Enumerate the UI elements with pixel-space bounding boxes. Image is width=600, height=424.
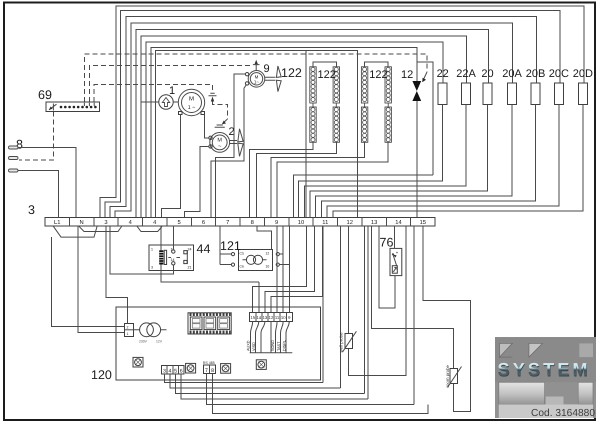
lamp 22 [438, 83, 447, 104]
well probe (NTC sensor) [339, 331, 357, 352]
svg-text:230V: 230V [139, 340, 148, 344]
wire loop from terminal 4 to lamp 22A [141, 36, 467, 217]
terminal block 3 [28, 203, 435, 226]
svg-text:RS 485: RS 485 [203, 361, 215, 365]
svg-text:3: 3 [163, 369, 166, 375]
wire motor9 lower terminal to strip [244, 85, 246, 88]
svg-text:69: 69 [38, 88, 52, 102]
svg-text:21: 21 [188, 266, 192, 270]
wire switch 76 to terminal 13 [379, 226, 395, 308]
svg-text:20D: 20D [573, 68, 593, 80]
wire terminal 12 down [340, 226, 342, 388]
wire terminal 13 to room probe [372, 226, 454, 369]
wire board pin 7 down [206, 373, 414, 404]
svg-text:12: 12 [269, 315, 274, 320]
pins of transformer 121 [231, 253, 234, 256]
transformer on board 120 [140, 323, 154, 337]
svg-text:Cod. 3164880: Cod. 3164880 [531, 408, 595, 419]
wire motor2 lower terminal to strip [184, 146, 208, 217]
display module on board 120 [188, 313, 231, 334]
wire motor1 left terminal to strip [162, 115, 181, 218]
svg-text:1: 1 [127, 332, 129, 336]
output connector 3-6 of board 120 [162, 366, 184, 375]
svg-text:1~: 1~ [254, 80, 260, 85]
capacitor / direction indicator of motor 1 [141, 95, 178, 109]
lamp 20C [554, 83, 563, 104]
svg-text:M: M [217, 138, 222, 144]
svg-text:12V: 12V [156, 340, 163, 344]
svg-text:C6: C6 [240, 265, 244, 269]
lamp 20B [531, 83, 540, 104]
svg-text:122: 122 [281, 66, 302, 80]
svg-text:122: 122 [318, 69, 336, 81]
svg-text:11: 11 [322, 220, 328, 226]
svg-text:5: 5 [177, 220, 180, 226]
svg-text:20C: 20C [549, 68, 569, 80]
display connector on board 120 [246, 312, 292, 353]
svg-text:8: 8 [211, 368, 214, 374]
dashed control line 69 to motor 1/2 thermal contacts [94, 85, 212, 102]
wire loop from terminal 3 to lamp 20D [100, 6, 584, 217]
control board 120 [91, 307, 321, 382]
wire lamp 20B to terminal 11 [321, 104, 535, 217]
wire lamp 20C to terminal 12 [327, 104, 559, 217]
svg-text:122: 122 [369, 69, 387, 81]
svg-text:10: 10 [281, 315, 286, 320]
mounting pads of board 120 [133, 357, 266, 373]
wire board pin 8 down [213, 373, 428, 413]
wire lamp 22A to terminal 10 [304, 104, 466, 217]
svg-text:L1: L1 [54, 220, 60, 226]
wire lamp 20 to terminal 11 [310, 104, 488, 217]
svg-text:13: 13 [263, 315, 268, 320]
svg-text:7: 7 [226, 220, 229, 226]
wire terminal L1 to board 120 power connector [78, 226, 124, 333]
lamp 22A [462, 83, 471, 104]
wire terminal 12 to well probe [348, 226, 350, 334]
svg-text:13: 13 [371, 219, 377, 226]
svg-text:7: 7 [205, 368, 208, 374]
coil of relay 44 [159, 250, 163, 264]
wires transformer 121 secondary to terminals 9 [279, 254, 289, 265]
wire jumper L1 link to board 120 power connector [52, 237, 125, 326]
wire terminal 4 through relay 44 coil [161, 226, 259, 282]
solenoid valve 12 [401, 69, 421, 217]
wire loop from terminal 4 to lamp 20A [115, 23, 513, 217]
svg-text:14: 14 [256, 315, 261, 320]
wire board pin 3 to terminal 11 [164, 374, 323, 382]
wire terminal 13 down [365, 226, 369, 399]
thermal contact of motor 1 [209, 93, 217, 101]
wire loop from terminal 4 to solenoid valve 12 [151, 48, 417, 218]
svg-text:6: 6 [202, 219, 205, 226]
door microswitch 76 [380, 236, 402, 276]
svg-text:76: 76 [380, 236, 394, 250]
wire terminal 8 to transformer 121 top [257, 226, 272, 250]
fan blades of motor 9 [265, 66, 281, 92]
svg-text:6: 6 [180, 369, 183, 375]
svg-text:22: 22 [437, 68, 449, 80]
wire valve node to terminal 10 [293, 175, 433, 217]
svg-text:SOND: SOND [271, 340, 275, 351]
wire motor9 upper terminal to strip [215, 74, 245, 217]
wire terminal 7 to transformer 121 primary [220, 226, 232, 265]
svg-text:8: 8 [251, 219, 254, 226]
wire motor2 upper terminal [205, 115, 209, 138]
auxiliary contact of relay 44 [186, 251, 188, 264]
wire terminal 11 down [322, 226, 324, 383]
jumper link N-4 [79, 226, 122, 232]
motor M2 (cooling fan) [209, 126, 235, 152]
svg-text:14: 14 [395, 220, 402, 226]
svg-text:3: 3 [28, 203, 35, 217]
svg-text:20B: 20B [526, 68, 546, 80]
jumper link L1-3 [53, 226, 97, 237]
svg-text:22A: 22A [456, 68, 476, 80]
connector strip 69 [38, 88, 99, 112]
wire board pin 5 to terminal 13 [176, 374, 365, 393]
svg-text:C5: C5 [240, 252, 244, 256]
wires to board 120 display connector [253, 226, 323, 312]
wire lamp 20D to terminal 12 [333, 104, 583, 217]
wire loop from terminal 3 to lamp 20B [110, 17, 537, 218]
svg-text:room probe: room probe [445, 364, 450, 387]
lamp 20 [483, 83, 492, 104]
svg-text:N: N [80, 220, 84, 226]
heater element 122 (right pair) [271, 62, 392, 217]
wire board pin 6 to terminal 13 [181, 374, 368, 399]
wire from valve node to nested bus [417, 62, 433, 175]
wire terminal 15 boundary down [413, 226, 415, 405]
wire terminal 14 to well probe return [349, 226, 406, 376]
jumper link 4-4 [137, 226, 162, 232]
svg-text:121: 121 [220, 239, 241, 253]
svg-text:SYSTEM: SYSTEM [498, 360, 591, 380]
svg-text:20A: 20A [502, 68, 522, 80]
svg-text:5: 5 [174, 369, 177, 375]
wire terminal 5 to relay 44 contact [172, 226, 174, 250]
wire loop from terminal 4 to lamp 22 [146, 42, 443, 217]
svg-text:M: M [189, 96, 194, 103]
thermal contact of motor 9 [253, 60, 260, 71]
svg-text:14: 14 [171, 258, 175, 262]
pin labels of relay 44 [151, 248, 192, 270]
svg-text:15: 15 [420, 220, 426, 226]
motor M9 (hood motor) [245, 63, 302, 87]
wire board pin 4 to terminal 12 [170, 374, 341, 388]
heater element 122 (left pair) [250, 62, 340, 217]
fan blades of motor 2 [230, 129, 243, 157]
wire lamp 20A to terminal 11 [316, 104, 512, 217]
svg-text:20: 20 [481, 68, 493, 80]
svg-text:3: 3 [151, 266, 153, 270]
dashed line 69 to plug 8 [19, 112, 53, 160]
dashed control line 69 to valve 12 [84, 54, 427, 102]
room probe (NTC sensor) [445, 364, 462, 387]
fanout wires to ribbon labels [251, 321, 290, 353]
power connector of board 120 [125, 323, 134, 336]
contact terminals of relay 44 [172, 250, 175, 253]
lamp 20D [578, 83, 587, 104]
svg-text:3: 3 [104, 219, 107, 226]
svg-text:44: 44 [197, 242, 211, 256]
svg-text:10: 10 [298, 219, 304, 226]
svg-text:10: 10 [266, 265, 270, 269]
svg-text:15: 15 [250, 315, 255, 320]
wire terminal 15 to room probe return [423, 226, 471, 411]
svg-text:11: 11 [275, 315, 280, 320]
relay 44 [149, 242, 210, 270]
svg-text:*: * [396, 251, 398, 257]
mains plug 8 [9, 138, 77, 218]
svg-text:1 ~: 1 ~ [188, 105, 196, 111]
wire terminal 14 to switch 76 [393, 226, 395, 249]
thermal contact of motor 2 [215, 125, 225, 127]
svg-text:~: ~ [218, 144, 222, 150]
wire plug earth to terminal L1 [18, 171, 59, 218]
wire loop from terminal 3 to lamp 20C [105, 11, 560, 218]
svg-text:24: 24 [188, 248, 192, 252]
dashed control line 69 to motor 9 thermal contact [89, 66, 250, 102]
svg-text:12: 12 [266, 252, 270, 256]
wire bus to heater elements 122 [156, 51, 358, 218]
svg-text:12: 12 [346, 219, 352, 226]
svg-text:AUXD: AUXD [246, 340, 250, 351]
lamp 20A [508, 83, 517, 104]
RS485 connector 7-8 of board 120 [203, 361, 216, 374]
wire terminal 3 to relay 44 coil return [106, 226, 173, 323]
wire loop from terminal 4 to lamp 20 [136, 30, 489, 218]
wire lamp 22 to terminal 10 [299, 104, 443, 217]
wire plug L to terminal N [18, 148, 76, 218]
svg-text:2: 2 [127, 326, 129, 330]
transformer 121 [220, 239, 279, 271]
svg-text:120: 120 [91, 368, 112, 382]
SYSTEM logo watermark [495, 337, 596, 419]
motor M1 (oven fan motor) [169, 85, 205, 116]
svg-text:12: 12 [401, 69, 413, 81]
svg-text:1: 1 [151, 248, 153, 252]
svg-text:9: 9 [275, 219, 278, 226]
svg-text:1: 1 [169, 85, 175, 97]
svg-text:4: 4 [169, 369, 172, 375]
svg-text:well probe: well probe [339, 332, 344, 353]
svg-text:9: 9 [264, 63, 270, 75]
